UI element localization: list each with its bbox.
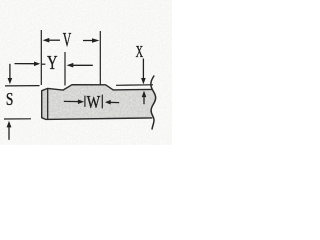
Y right extension line — [64, 52, 66, 86]
V right extension line — [99, 31, 101, 85]
Y dimension stub — [42, 63, 46, 65]
lead body (part) fill — [42, 85, 156, 120]
S top line — [5, 85, 40, 87]
lead bottom edge — [42, 118, 153, 120]
svg-text:X: X — [136, 42, 144, 61]
V left extension line — [40, 30, 42, 85]
X down arrow — [142, 59, 144, 79]
W right arrow — [110, 101, 120, 103]
W right tick — [101, 95, 103, 109]
V left arrow — [48, 39, 60, 41]
lead top profile edge — [42, 85, 152, 91]
svg-text:V: V — [63, 30, 72, 51]
lead left end edge — [41, 90, 43, 118]
background scan noise — [0, 0, 172, 145]
Y right arrow (outside, pointing left) — [73, 64, 93, 66]
Y left arrow (outside, pointing right) — [15, 63, 35, 65]
lead tip face shading — [42, 88, 48, 119]
S up arrow — [8, 127, 10, 140]
V right arrow — [83, 40, 92, 42]
X upper reference line — [116, 84, 153, 87]
part speckle texture — [40, 83, 156, 121]
S down arrow — [9, 64, 11, 79]
svg-text:W: W — [87, 92, 101, 112]
svg-text:S: S — [6, 89, 14, 109]
break squiggle (right edge) — [151, 76, 156, 130]
svg-text:Y: Y — [47, 53, 58, 74]
S bottom line — [4, 118, 31, 120]
X up arrow — [143, 97, 145, 105]
lead tip inner edge — [47, 88, 49, 119]
W left tick — [84, 96, 86, 107]
W left arrow — [64, 100, 80, 102]
